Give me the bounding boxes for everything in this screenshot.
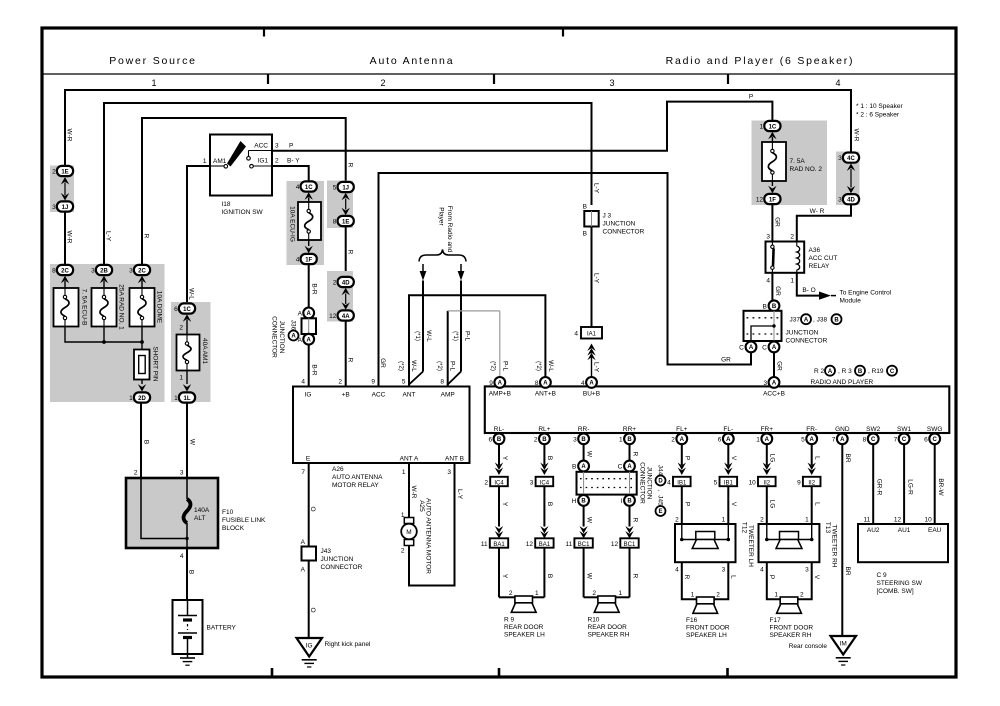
svg-text:H: H [572, 498, 577, 505]
svg-text:J 3: J 3 [603, 213, 612, 220]
tweeter internal wires [681, 524, 683, 540]
svg-text:P-L: P-L [463, 331, 470, 342]
grey block 40A AM1 [171, 302, 211, 402]
arrow into 4D [847, 186, 855, 194]
wire R down [345, 227, 347, 277]
arrows into IC4 [495, 463, 503, 471]
svg-text:B-R: B-R [310, 283, 317, 295]
svg-text:BC1: BC1 [578, 542, 590, 548]
wire B-Y from IG1 to 1C ECU-IG [272, 166, 309, 182]
wire 1J to 2C [64, 212, 66, 265]
svg-text:R10: R10 [588, 617, 600, 624]
svg-text:AU2: AU2 [867, 527, 880, 534]
svg-text:2: 2 [338, 379, 342, 386]
radio top pin ANT+B [540, 377, 551, 388]
arrows into BC1 12 [625, 526, 633, 534]
svg-text:B: B [546, 456, 553, 460]
wire BR to rear console ground [841, 444, 843, 636]
svg-text:W- R: W- R [810, 208, 825, 215]
svg-text:A: A [680, 437, 685, 443]
svg-text:3: 3 [766, 234, 770, 241]
wire B to battery [186, 548, 188, 600]
svg-text:4: 4 [766, 278, 770, 285]
svg-text:4D: 4D [342, 280, 350, 286]
svg-text:1E: 1E [342, 219, 349, 225]
steering switch C9 box [858, 524, 948, 562]
wire L upper [811, 444, 813, 465]
wire Y RL- middle [498, 486, 500, 526]
svg-text:AUTO ANTENNA MOTOR: AUTO ANTENNA MOTOR [424, 498, 431, 574]
svg-text:11: 11 [565, 541, 572, 548]
svg-text:C: C [618, 464, 623, 471]
svg-text:3: 3 [763, 380, 767, 387]
svg-text:W: W [585, 517, 592, 524]
svg-text:J43: J43 [321, 548, 332, 555]
svg-text:(*1): (*1) [452, 331, 458, 341]
svg-text:CONNECTOR: CONNECTOR [638, 462, 645, 504]
grey block 1E 1J [50, 166, 74, 213]
svg-text:3: 3 [838, 155, 842, 162]
svg-text:7. 5A: 7. 5A [790, 158, 806, 165]
wire W-R 4D to relay pin 2 [797, 205, 851, 242]
arrow to engine control module [819, 292, 831, 300]
wire L-Y J3 to IA1 [591, 227, 593, 328]
svg-text:ANT: ANT [403, 392, 416, 399]
tick top border between Auto Antenna and Radio and Player [562, 29, 564, 37]
svg-text:Right kick panel: Right kick panel [325, 641, 371, 648]
radio and player box [485, 386, 950, 433]
arrow into 1F [308, 240, 310, 246]
svg-text:FR+: FR+ [761, 426, 774, 433]
arrow right antenna feed [460, 264, 462, 271]
fuse 7.5A ECU-B [54, 288, 79, 327]
svg-text:8: 8 [52, 268, 56, 275]
svg-text:L: L [814, 456, 821, 460]
svg-text:3: 3 [805, 567, 809, 574]
fusible link 140A ALT element [186, 478, 188, 499]
svg-text:SPEAKER RH: SPEAKER RH [770, 632, 812, 639]
svg-text:1C: 1C [769, 124, 777, 130]
svg-text:IC4: IC4 [540, 480, 550, 486]
junction connector J36 bottom pin A [303, 334, 314, 345]
svg-text:3: 3 [722, 567, 726, 574]
svg-text:3: 3 [447, 469, 451, 476]
junction pin B B [769, 300, 780, 311]
junction pin B A [578, 461, 589, 472]
fuse 7.5A RAD NO.2 [762, 142, 786, 181]
connector 2C pin 3 dome [134, 265, 150, 275]
svg-text:9: 9 [797, 479, 801, 486]
svg-text:11: 11 [863, 517, 870, 524]
svg-text:1: 1 [203, 158, 207, 165]
svg-text:L: L [730, 575, 737, 579]
svg-text:W-L: W-L [410, 360, 417, 372]
svg-text:GR: GR [773, 217, 780, 227]
svg-text:AM1: AM1 [213, 158, 227, 165]
junction connector J3 box [584, 211, 598, 227]
svg-text:4: 4 [296, 184, 300, 191]
wire W-R bus from 1E to 4C [65, 90, 851, 166]
arrow into 1J [61, 193, 69, 201]
svg-text:3: 3 [609, 78, 614, 88]
ground symbol battery [180, 657, 195, 659]
svg-text:4D: 4D [847, 198, 855, 204]
svg-text:JUNCTION: JUNCTION [278, 321, 285, 354]
wire L to tweeter [811, 486, 813, 524]
svg-text:25A RAD NO. 1: 25A RAD NO. 1 [117, 284, 124, 330]
svg-text:IG: IG [305, 392, 312, 399]
svg-text:2: 2 [380, 78, 385, 88]
svg-text:FR-: FR- [806, 426, 817, 433]
ignition contact ACC [247, 157, 251, 161]
svg-text:JUNCTION: JUNCTION [645, 467, 652, 500]
svg-text:V: V [730, 502, 737, 507]
svg-text:12: 12 [894, 517, 902, 524]
svg-text:LG: LG [769, 454, 776, 463]
svg-text:A: A [301, 567, 306, 574]
junction connector J36 top pin A [303, 308, 314, 319]
svg-text:V: V [813, 575, 820, 580]
svg-text:Auto Antenna: Auto Antenna [370, 55, 455, 67]
svg-text:AUTO ANTENNA: AUTO ANTENNA [332, 474, 383, 481]
svg-text:2: 2 [800, 592, 804, 599]
svg-text:A25: A25 [418, 500, 425, 512]
svg-text:IGNITION SW: IGNITION SW [222, 209, 264, 216]
svg-text:ACC+B: ACC+B [763, 391, 785, 398]
svg-text:3: 3 [275, 143, 279, 150]
arrow into 1E [342, 208, 350, 216]
connector BA1 pin 12 [535, 538, 553, 547]
svg-text:R: R [142, 234, 149, 239]
svg-text:* 2 : 6 Speaker: * 2 : 6 Speaker [856, 112, 900, 119]
wire motor to ANT B [409, 463, 455, 586]
arrow into 1C [183, 314, 191, 322]
svg-text:J45: J45 [656, 495, 663, 506]
relay A36 ACC CUT box [766, 242, 805, 273]
svg-text:A: A [765, 437, 770, 443]
svg-text:1: 1 [151, 78, 156, 88]
relay coil [797, 246, 800, 270]
tweeter internal speaker [780, 532, 799, 540]
svg-text:RL-: RL- [494, 426, 504, 433]
tick bottom border 3 [726, 668, 729, 676]
svg-text:, R19: , R19 [868, 368, 884, 375]
tick bottom border 2 [498, 668, 501, 676]
svg-text:4: 4 [835, 78, 840, 88]
svg-text:A: A [301, 539, 306, 546]
connector 4A pin 12 [338, 310, 354, 320]
connector BC1 pin 12 [620, 538, 638, 547]
svg-text:1J: 1J [342, 185, 349, 191]
svg-text:Radio and Player (6 Speaker): Radio and Player (6 Speaker) [666, 55, 855, 67]
svg-text:BLOCK: BLOCK [222, 525, 245, 532]
connector 2B pin 3 [96, 265, 112, 275]
svg-text:SWG: SWG [927, 426, 943, 433]
svg-text:1F: 1F [769, 197, 776, 203]
ground triangle IG right kick panel [297, 638, 323, 657]
svg-text:BR: BR [844, 453, 851, 462]
svg-text:B: B [581, 437, 586, 443]
arrow left antenna feed [422, 264, 424, 271]
svg-text:W-R: W-R [852, 129, 859, 142]
svg-text:II2: II2 [763, 480, 770, 486]
svg-text:4: 4 [581, 380, 585, 387]
svg-text:Y: Y [501, 456, 508, 461]
svg-text:SHORT PIN: SHORT PIN [151, 346, 158, 381]
svg-text:T12: T12 [740, 522, 747, 534]
wire GR to ACC+B [773, 352, 775, 377]
svg-text:MOTOR RELAY: MOTOR RELAY [332, 482, 379, 489]
fuse 40A AM1 [177, 335, 200, 371]
svg-text:3: 3 [838, 197, 842, 204]
junction pin C A right [769, 342, 780, 353]
svg-text:IG1: IG1 [258, 158, 269, 165]
arrows into BC1 11 [579, 526, 587, 534]
relay contact [771, 245, 774, 248]
svg-text:W-L: W-L [425, 330, 432, 342]
connector 4D pin 3 [843, 194, 859, 204]
wire GR relay pin4 to B junction [771, 273, 773, 301]
junction pin I B [624, 495, 635, 506]
svg-text:R: R [631, 574, 638, 579]
svg-text:I: I [620, 498, 622, 505]
svg-text:7. 5A ECU-B: 7. 5A ECU-B [80, 289, 87, 326]
svg-text:J44: J44 [656, 465, 663, 476]
svg-text:8: 8 [333, 219, 337, 226]
wire P upper [681, 444, 683, 465]
arrows into IB1 [678, 463, 686, 471]
svg-text:4A: 4A [342, 314, 350, 320]
svg-text:8: 8 [535, 380, 539, 387]
connector 2D pin 1 [134, 392, 150, 402]
tick top border between Power Source and Auto Antenna [263, 29, 265, 37]
svg-text:W-R: W-R [65, 231, 72, 244]
svg-text:FRONT DOOR: FRONT DOOR [770, 625, 814, 632]
svg-text:IC4: IC4 [494, 480, 504, 486]
svg-text:O: O [309, 607, 316, 612]
connector 2C pin 8 [57, 265, 73, 275]
svg-text:Power Source: Power Source [109, 55, 197, 67]
svg-text:A26: A26 [332, 466, 344, 473]
svg-text:GND: GND [835, 426, 850, 433]
wire W RR- lower [583, 506, 585, 527]
svg-text:A: A [298, 311, 303, 318]
grey block 4C 4D [836, 152, 860, 206]
tweeter internal wires [766, 524, 768, 540]
svg-text:A: A [804, 318, 809, 324]
svg-text:SPEAKER RH: SPEAKER RH [588, 632, 630, 639]
svg-text:IB1: IB1 [724, 480, 734, 486]
svg-text:10: 10 [924, 517, 932, 524]
connector 1F pin 12 [764, 194, 780, 204]
arrow into 4D [342, 288, 350, 296]
svg-text:M: M [406, 529, 411, 536]
svg-text:C: C [762, 344, 767, 351]
svg-text:2: 2 [52, 169, 56, 176]
svg-text:+B: +B [342, 392, 350, 399]
svg-text:9: 9 [371, 379, 375, 386]
svg-text:W: W [188, 439, 195, 446]
connector BC1 pin 11 [574, 538, 592, 547]
svg-text:BA1: BA1 [493, 542, 505, 548]
svg-text:ANT B: ANT B [445, 456, 464, 463]
svg-text:L-Y: L-Y [592, 273, 599, 284]
grey block 7.5A RAD NO.2 [752, 121, 828, 206]
curly brace [419, 250, 466, 262]
wire BR-W [934, 444, 936, 524]
svg-text:R: R [683, 575, 690, 580]
junction connector J43 box [302, 547, 317, 561]
wire B RL+ lower [543, 548, 545, 598]
svg-text:A: A [749, 345, 754, 351]
svg-text:P: P [684, 456, 691, 460]
svg-text:10A ECU-IG: 10A ECU-IG [288, 206, 295, 242]
ignition pivot contact AM1 [210, 165, 224, 167]
svg-text:4: 4 [675, 567, 679, 574]
wires to door speaker [682, 562, 697, 599]
svg-text:1: 1 [756, 436, 760, 443]
svg-text:P-L: P-L [448, 361, 455, 372]
wire P-L (*2) AMP vertical [447, 311, 449, 387]
wire B RL+ upper [543, 444, 545, 465]
svg-text:L-Y: L-Y [592, 362, 599, 373]
svg-text:(*2): (*2) [489, 361, 495, 371]
svg-text:L-Y: L-Y [456, 489, 463, 500]
arrow into 1J [342, 193, 350, 201]
svg-text:REAR DOOR: REAR DOOR [504, 624, 544, 631]
arrows into BA1 [495, 526, 503, 534]
svg-text:FRONT DOOR: FRONT DOOR [686, 625, 730, 632]
svg-text:A: A [828, 369, 833, 375]
ground triangle IM rear console [831, 636, 857, 655]
wire W to speaker R10 [583, 548, 585, 598]
arrow into 1C [768, 132, 776, 140]
svg-text:R: R [346, 250, 353, 255]
arrows into II2 [808, 463, 816, 471]
svg-text:Player: Player [437, 207, 444, 226]
svg-text:1: 1 [619, 436, 623, 443]
arrow into 2C [61, 276, 69, 284]
connector 1L pin 1 [179, 392, 195, 402]
wire GR 1F to relay pin 3 [771, 205, 773, 242]
svg-text:FL-: FL- [723, 426, 733, 433]
svg-text:2C: 2C [61, 268, 69, 274]
svg-text:W-R: W-R [65, 129, 72, 142]
junction connector J36 box [302, 318, 317, 334]
arrow into 2B [100, 276, 108, 284]
svg-text:B: B [627, 499, 632, 505]
svg-text:P: P [684, 502, 691, 506]
svg-text:2: 2 [760, 517, 764, 524]
connector IC4 pin 3 [536, 477, 554, 486]
svg-text:FUSIBLE LINK: FUSIBLE LINK [222, 517, 266, 524]
svg-text:TWEETER LH: TWEETER LH [747, 525, 754, 567]
svg-text:5: 5 [714, 479, 718, 486]
svg-text:JUNCTION: JUNCTION [603, 221, 636, 228]
svg-text:,: , [656, 490, 663, 492]
svg-text:ANT A: ANT A [400, 456, 419, 463]
svg-text:L-Y: L-Y [104, 231, 111, 242]
wire B-R to relay IG pin [308, 345, 310, 387]
arrow into 2D [141, 380, 143, 385]
svg-text:BU+B: BU+B [583, 391, 600, 398]
svg-text:R: R [346, 358, 353, 363]
svg-text:B: B [762, 303, 766, 310]
wire W-L from AM1 to 40A AM1 fuse [187, 166, 210, 304]
svg-text:SW2: SW2 [866, 426, 880, 433]
svg-text:A: A [589, 381, 594, 387]
tweeter box T12 [675, 524, 736, 562]
svg-text:* 1 : 10 Speaker: * 1 : 10 Speaker [856, 103, 903, 110]
junction pin H B [578, 495, 589, 506]
connector 4D pin 2 [338, 277, 354, 287]
svg-text:J37: J37 [790, 317, 801, 324]
svg-text:B: B [546, 574, 553, 578]
svg-text:F17: F17 [770, 617, 782, 624]
svg-text:3: 3 [129, 268, 133, 275]
tick column 2-3 [493, 74, 495, 84]
svg-text:ACC: ACC [372, 392, 386, 399]
svg-text:2: 2 [509, 590, 513, 597]
grey block 1J 1E [327, 181, 353, 229]
svg-text:12: 12 [329, 313, 337, 320]
svg-text:W-R: W-R [410, 486, 417, 499]
svg-text:ANT+B: ANT+B [535, 391, 556, 398]
connector 1C pin 1 [764, 121, 780, 131]
svg-text:ALT: ALT [194, 515, 205, 522]
svg-text:2B: 2B [100, 268, 108, 274]
svg-text:RELAY: RELAY [809, 263, 830, 270]
svg-text:1: 1 [129, 395, 133, 402]
svg-text:1: 1 [174, 395, 178, 402]
svg-text:1E: 1E [61, 169, 68, 175]
svg-text:RR+: RR+ [623, 426, 636, 433]
fuse 25A RAD NO.1 [92, 288, 117, 327]
connector 1E pin 2 [57, 166, 73, 176]
wire LG to tweeter [766, 486, 768, 524]
svg-text:From Radio and: From Radio and [446, 206, 453, 253]
svg-text:(*1): (*1) [414, 331, 420, 341]
svg-text:2: 2 [275, 158, 279, 165]
wire R to speaker R10 [629, 548, 631, 598]
connector IB1 pin 5 [720, 477, 738, 486]
speaker R9 symbol [515, 596, 533, 603]
arrow into 1L [186, 371, 188, 385]
connector 1C pin 6 [179, 303, 195, 313]
svg-text:4: 4 [296, 257, 300, 264]
internal wire pin2 [141, 478, 187, 539]
junction pin C A left [746, 342, 757, 353]
wire R RR+ lower [629, 506, 631, 527]
wire B RL+ middle [543, 486, 545, 526]
svg-text:IM: IM [840, 641, 847, 648]
svg-text:A: A [840, 437, 845, 443]
tick bottom border 1 [271, 668, 274, 676]
connector 1J pin 3 [57, 201, 73, 211]
door speaker F17 [780, 597, 798, 604]
svg-text:IB1: IB1 [677, 480, 687, 486]
tweeter box T13 [759, 524, 820, 562]
connector 1C pin 4 [301, 181, 317, 191]
svg-text:CONNECTOR: CONNECTOR [270, 316, 277, 358]
svg-text:6: 6 [488, 436, 492, 443]
svg-text:To Engine Control: To Engine Control [840, 290, 892, 297]
svg-text:LG-R: LG-R [906, 479, 913, 495]
svg-text:7: 7 [832, 436, 836, 443]
svg-text:CONNECTOR: CONNECTOR [321, 564, 363, 571]
wire L-Y bus from 2B to J3 [104, 103, 592, 265]
svg-text:B: B [834, 318, 839, 324]
